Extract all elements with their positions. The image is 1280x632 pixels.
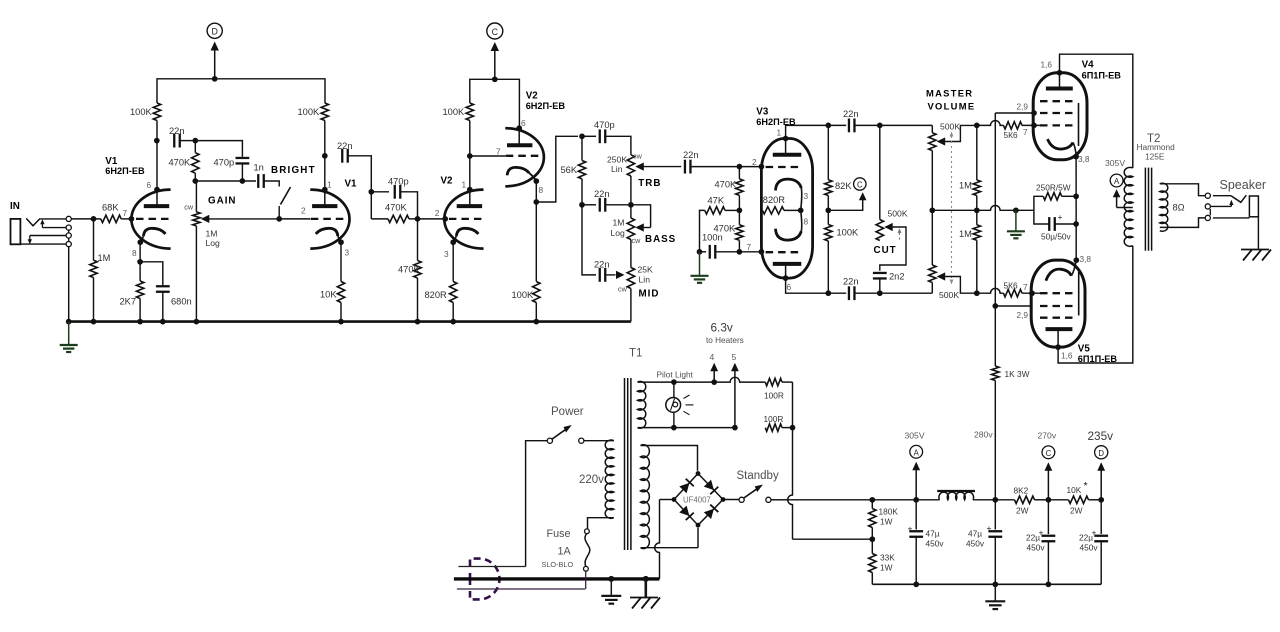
svg-text:6.3v: 6.3v (711, 321, 733, 335)
resistor 68K grid stopper (101, 215, 121, 222)
svg-text:+: + (908, 524, 913, 534)
tube V4 6P1P-EV envelope (1033, 73, 1087, 160)
svg-text:220v: 220v (579, 474, 604, 486)
svg-text:7: 7 (1023, 127, 1028, 137)
resistor 10K cathode V1b (340, 242, 342, 281)
capacitor 22n coupling V1a-V1b (173, 134, 175, 148)
wire V4 plate to output transformer (1060, 54, 1133, 168)
svg-text:22n: 22n (594, 260, 610, 270)
svg-text:305V: 305V (905, 431, 925, 441)
svg-text:3: 3 (444, 249, 449, 259)
svg-text:1W: 1W (880, 517, 893, 527)
svg-text:8: 8 (804, 217, 809, 227)
svg-text:V5: V5 (1078, 344, 1091, 355)
svg-text:500K: 500K (888, 209, 908, 219)
resistor 100K plate V2a (466, 103, 473, 121)
svg-text:470p: 470p (594, 120, 615, 130)
svg-text:68K: 68K (102, 203, 119, 213)
wire bridge negative to earth (660, 499, 675, 501)
svg-text:Standby: Standby (737, 470, 779, 482)
resistor 470K bias upper (738, 167, 740, 179)
svg-text:cw: cw (633, 152, 643, 161)
svg-text:100K: 100K (837, 228, 860, 238)
svg-text:Power: Power (551, 406, 584, 418)
svg-text:V1: V1 (105, 156, 118, 167)
svg-text:180K: 180K (879, 507, 899, 517)
svg-text:10K: 10K (320, 290, 337, 300)
triode V3b internals (773, 262, 802, 266)
wire V5 plate to output transformer (1058, 246, 1133, 363)
potentiometer master volume lower 500K (929, 265, 936, 283)
svg-text:TRB: TRB (638, 178, 661, 189)
node D circle (207, 23, 222, 38)
mains wires from plug (458, 566, 525, 568)
svg-text:V2: V2 (441, 176, 454, 187)
svg-text:6Н2П-ЕВ: 6Н2П-ЕВ (105, 166, 145, 176)
wire bass to mid column (630, 240, 632, 268)
wire heater top (638, 381, 674, 383)
svg-text:10K: 10K (1067, 485, 1082, 495)
svg-text:2n2: 2n2 (889, 272, 905, 282)
svg-text:500K: 500K (940, 121, 960, 131)
speaker jack (1213, 195, 1231, 197)
svg-text:*: * (1084, 480, 1088, 492)
wire jack sleeve to ground bus (68, 247, 70, 322)
heater arrows 6.3v (713, 370, 715, 382)
potentiometer master volume upper 500K (931, 125, 933, 132)
wire gain wiper to V1b grid (279, 218, 310, 220)
node A center tap 305V (1117, 207, 1133, 209)
svg-text:A: A (1114, 177, 1120, 186)
svg-text:22n: 22n (169, 126, 185, 136)
capacitor 22u 450v D node (1100, 500, 1102, 534)
svg-text:8K2: 8K2 (1014, 486, 1029, 496)
svg-text:2: 2 (752, 157, 757, 167)
resistor 1M input load (93, 219, 95, 260)
potentiometer GAIN 1M Log (195, 181, 197, 212)
svg-text:5К6: 5К6 (1004, 281, 1018, 291)
svg-text:3: 3 (345, 247, 350, 257)
node D supply arrow 235v (1098, 497, 1104, 503)
wire shared cathode node (1075, 157, 1077, 261)
svg-text:8: 8 (539, 185, 544, 195)
resistor 100R hum balance upper (765, 378, 782, 385)
svg-text:1W: 1W (880, 563, 893, 573)
wire V3 grid1 input (739, 166, 761, 168)
transformer T1 core (624, 378, 626, 550)
svg-text:100R: 100R (764, 391, 784, 401)
svg-text:22n: 22n (843, 109, 859, 119)
svg-text:cw: cw (618, 285, 628, 294)
wire to V2a grid (418, 218, 446, 220)
svg-text:8: 8 (132, 248, 137, 258)
resistor 470K series (388, 215, 409, 222)
resistor 470K bias lower (736, 225, 743, 241)
wire grid2 V3 (739, 251, 761, 253)
wire cathode to tone stack (536, 136, 578, 202)
wire bright line (195, 180, 256, 182)
svg-text:7: 7 (1023, 282, 1028, 292)
resistor 2K7 cathode V1a (136, 281, 143, 299)
choke filter (937, 490, 975, 492)
svg-text:5К6: 5К6 (1004, 130, 1018, 140)
svg-text:470K: 470K (169, 158, 192, 168)
svg-text:4: 4 (710, 352, 715, 362)
resistor 5K6 grid stopper V5 (1004, 290, 1023, 297)
wire standby to B+ rail (771, 499, 786, 501)
tube V5 6P1P-EV envelope (1031, 260, 1085, 347)
svg-text:D: D (1098, 449, 1104, 458)
svg-text:C: C (857, 180, 863, 189)
svg-text:CUT: CUT (874, 245, 897, 256)
wire V1a plate column (156, 121, 158, 190)
mains plug (470, 559, 499, 600)
resistor 1K 3W screen supply (994, 306, 996, 366)
svg-text:470p: 470p (388, 177, 409, 187)
svg-text:100R: 100R (764, 414, 784, 424)
resistor 47K tail (705, 207, 725, 214)
node A supply arrow 305V (915, 469, 917, 500)
switch Power (526, 441, 548, 567)
wire to 470p/470K split (371, 191, 389, 193)
ground symbol input (68, 322, 70, 345)
wire heater bottom (638, 427, 674, 429)
resistor 56K (581, 136, 583, 160)
svg-text:1: 1 (327, 179, 332, 189)
svg-text:UF4007: UF4007 (683, 496, 711, 505)
svg-text:+: + (987, 523, 992, 533)
wire V5 grid with hop over screen line (977, 288, 1004, 293)
svg-text:2W: 2W (1016, 506, 1029, 516)
svg-text:8Ω: 8Ω (1173, 203, 1185, 213)
svg-text:1K 3W: 1K 3W (1005, 369, 1030, 379)
svg-text:V2: V2 (526, 90, 539, 101)
svg-text:2,9: 2,9 (1017, 102, 1029, 112)
resistor 100R hum balance lower (765, 424, 782, 431)
wire secondary to speaker jack (1160, 184, 1205, 196)
bridge rectifier UF4007 (674, 474, 723, 526)
mains earth heavy line (454, 577, 660, 580)
wire middle rail (932, 206, 1016, 211)
earth ground symbol mains (610, 579, 612, 596)
svg-text:50µ/50v: 50µ/50v (1041, 231, 1072, 241)
node C supply arrow (494, 50, 496, 79)
wire jack to chassis ground (1257, 217, 1259, 249)
svg-text:2: 2 (301, 205, 306, 215)
svg-text:280v: 280v (974, 430, 993, 440)
svg-text:450v: 450v (1027, 543, 1046, 553)
capacitor 1n bright (257, 174, 259, 188)
wire V1a cathode to RC (139, 242, 141, 281)
resistor 82K plate load V3a (827, 125, 829, 179)
screen supply line (994, 113, 996, 306)
svg-text:VOLUME: VOLUME (928, 101, 976, 112)
potentiometer TRB 250K Lin (627, 155, 634, 176)
node C circle small (854, 178, 866, 190)
svg-text:V1: V1 (345, 179, 358, 190)
resistor 33K 1W divider lower (871, 539, 873, 553)
svg-text:D: D (212, 27, 218, 37)
svg-text:+: + (1058, 212, 1063, 222)
svg-text:125E: 125E (1145, 151, 1165, 161)
resistor 100K cathode follower load (533, 282, 540, 303)
svg-text:820R: 820R (425, 290, 448, 300)
svg-text:305V: 305V (1105, 158, 1125, 168)
wire hum balance to divider tap (792, 382, 794, 428)
ground symbol cathode (1015, 210, 1017, 231)
svg-text:Pilot Light: Pilot Light (657, 370, 694, 380)
resistor 8K2 2W (995, 499, 1014, 501)
ground bus preamp (69, 320, 631, 323)
wire cathode network to ground (1034, 196, 1045, 224)
svg-text:cw: cw (184, 202, 194, 211)
svg-text:SLO-BLO: SLO-BLO (542, 560, 574, 569)
node C circle (487, 23, 503, 39)
svg-text:1,6: 1,6 (1041, 60, 1053, 70)
svg-text:470K: 470K (715, 180, 738, 190)
capacitor 22n treble out (684, 160, 686, 174)
wire B+ rail C to V2 stage (470, 79, 520, 128)
pentode V5 internals (1046, 327, 1073, 331)
svg-text:Lin: Lin (611, 164, 623, 174)
svg-text:1n: 1n (254, 163, 264, 173)
resistor 100K plate V1b (321, 103, 328, 121)
capacitor 680n cathode bypass (156, 285, 170, 287)
triode V3a internals (773, 153, 802, 157)
svg-text:T1: T1 (629, 348, 642, 360)
svg-text:450v: 450v (926, 539, 945, 549)
B+ rail with hop (786, 499, 872, 501)
svg-text:2,9: 2,9 (1017, 310, 1029, 320)
triode V2b cathode follower (505, 128, 544, 186)
svg-text:5: 5 (732, 352, 737, 362)
svg-text:to Heaters: to Heaters (706, 336, 744, 345)
wire bridge positive to standby (723, 499, 739, 501)
resistor 100K plate load V3b (825, 225, 832, 242)
capacitor 22n output bottom (848, 286, 850, 300)
svg-text:BASS: BASS (645, 234, 676, 245)
svg-text:6П1П-ЕВ: 6П1П-ЕВ (1082, 71, 1122, 81)
wire V3a plate to top rail (786, 125, 847, 138)
wire HV secondary bottom to bridge (641, 547, 699, 549)
svg-text:250R/5W: 250R/5W (1036, 182, 1071, 192)
resistor 1M grid V5 (974, 290, 980, 296)
gang dotted link master volume (951, 136, 953, 280)
wire V3b plate to bottom rail (786, 278, 847, 293)
svg-text:100n: 100n (702, 233, 723, 243)
svg-text:1: 1 (777, 128, 782, 138)
wire 47K to 100n (700, 210, 705, 251)
capacitor 22n mid (582, 205, 596, 275)
ground symbol V3 tail (699, 252, 701, 276)
capacitor 47u 450v first filter (915, 500, 917, 530)
resistor 820R shared cathode (762, 207, 784, 214)
transformer T1 HV secondary winding (641, 445, 650, 549)
svg-text:7: 7 (123, 208, 128, 218)
capacitor 22n coupling V1b out (341, 149, 343, 163)
svg-text:100K: 100K (298, 107, 321, 117)
svg-text:235v: 235v (1088, 429, 1114, 443)
wire V1b plate column (324, 121, 326, 190)
svg-text:Lin: Lin (639, 275, 651, 285)
svg-text:2: 2 (435, 208, 440, 218)
pentode V4 internals (1046, 87, 1073, 91)
svg-text:820R: 820R (763, 195, 786, 205)
transformer T2 core (1144, 168, 1146, 251)
node C arrow (plate supply tap) (828, 200, 862, 210)
svg-text:1A: 1A (558, 546, 572, 558)
svg-text:22n: 22n (337, 141, 353, 151)
switch Standby (739, 497, 744, 502)
svg-text:680n: 680n (171, 297, 192, 307)
svg-text:47µ: 47µ (926, 529, 940, 539)
pilot light (673, 382, 675, 398)
svg-text:270v: 270v (1038, 431, 1057, 441)
svg-text:470p: 470p (214, 158, 235, 168)
svg-text:1: 1 (462, 179, 467, 189)
capacitor 470p treble (582, 135, 596, 137)
svg-text:2W: 2W (1070, 506, 1083, 516)
svg-text:7: 7 (496, 147, 501, 157)
svg-text:MID: MID (639, 289, 660, 300)
svg-text:22n: 22n (843, 277, 859, 287)
svg-text:56K: 56K (561, 165, 578, 175)
resistor 820R cathode V2a (452, 242, 454, 281)
tube V3 envelope 6N2P-EV (761, 139, 812, 279)
transformer T2 secondary winding (1160, 183, 1168, 231)
svg-text:1M: 1M (98, 253, 111, 263)
resistor 100K plate V1a (153, 103, 160, 121)
svg-text:A: A (914, 448, 920, 457)
wire V2b cathode node (535, 181, 537, 281)
wire input to grid V1 pin 7 (71, 218, 101, 220)
triode V1b 6N2P-EV (310, 190, 349, 249)
svg-text:500K: 500K (939, 290, 959, 300)
svg-text:450v: 450v (966, 539, 985, 549)
svg-text:3,8: 3,8 (1078, 154, 1090, 164)
svg-text:3: 3 (804, 191, 809, 201)
svg-text:82K: 82K (835, 181, 852, 191)
svg-text:V4: V4 (1082, 60, 1095, 71)
svg-text:6: 6 (787, 282, 792, 292)
capacitor 50u/50v cathode bypass (1048, 217, 1050, 231)
transformer T1 primary winding (605, 440, 614, 518)
resistor 10K 2W (1069, 496, 1089, 503)
svg-text:33K: 33K (880, 553, 895, 563)
svg-text:470K: 470K (398, 265, 421, 275)
svg-text:47K: 47K (708, 195, 725, 205)
node 280v junction (992, 497, 998, 503)
svg-text:100K: 100K (130, 107, 153, 117)
potentiometer CUT 500K (879, 125, 881, 219)
svg-text:22µ: 22µ (1079, 533, 1093, 543)
svg-text:22n: 22n (594, 189, 610, 199)
wire V2a plate to V2b grid junction (469, 121, 471, 190)
svg-text:C: C (492, 27, 499, 37)
capacitor 470p treble peek (394, 185, 396, 199)
wire 22n out to 470K and 470p (195, 141, 242, 157)
svg-text:6: 6 (147, 180, 152, 190)
triode V1a 6N2P-EV (131, 190, 170, 249)
chassis ground speaker (1241, 249, 1269, 251)
svg-text:Fuse: Fuse (547, 528, 571, 540)
svg-text:1,6: 1,6 (1061, 351, 1073, 361)
capacitor 22n bass (579, 202, 585, 208)
node D supply arrow (214, 50, 216, 79)
wire B+ rail D to V1 stage (157, 79, 325, 103)
svg-text:1M: 1M (206, 228, 218, 238)
svg-text:MASTER: MASTER (926, 88, 973, 99)
speaker jack contacts (1205, 193, 1210, 198)
chassis ground symbol mains (644, 579, 647, 598)
svg-text:22µ: 22µ (1026, 533, 1040, 543)
svg-text:1M: 1M (613, 218, 625, 228)
capacitor 470p bright feed (236, 157, 250, 159)
svg-text:1M: 1M (959, 229, 972, 239)
resistor 470K to ground (417, 219, 419, 261)
resistor 180K 1W divider upper (871, 500, 873, 509)
wire HV secondary top to bridge (641, 446, 698, 471)
transformer T2 primary winding (1124, 167, 1133, 246)
fuse (588, 518, 614, 529)
svg-text:450v: 450v (1080, 543, 1099, 553)
wire V4 grid with hop over screen line (977, 121, 1004, 126)
svg-text:cw: cw (632, 236, 642, 245)
transformer T1 heater winding 6.3v (638, 381, 646, 428)
resistor 470K gain feed (192, 153, 199, 174)
potentiometer MID 25K Lin (627, 268, 634, 289)
wire switch to T1 primary (584, 440, 614, 442)
svg-text:BRIGHT: BRIGHT (271, 165, 316, 176)
svg-text:GAIN: GAIN (208, 196, 237, 207)
svg-text:IN: IN (10, 201, 20, 212)
resistor 5K6 grid stopper V4 (1004, 122, 1023, 129)
svg-text:25K: 25K (638, 265, 654, 275)
capacitor 100n tail bypass (700, 251, 707, 253)
capacitor 47u 450v second filter (994, 500, 996, 530)
svg-text:22n: 22n (683, 150, 699, 160)
svg-text:6Н2П-ЕВ: 6Н2П-ЕВ (526, 101, 566, 111)
switch bright (264, 181, 280, 187)
triode V2a 6N2P-EV (444, 190, 483, 249)
capacitor 22n output top (848, 119, 850, 133)
svg-text:Log: Log (611, 228, 626, 238)
svg-text:Speaker: Speaker (1220, 178, 1267, 192)
resistor 1M grid V4 (974, 123, 980, 129)
capacitor 22u 450v C node (1047, 500, 1049, 534)
svg-text:3,8: 3,8 (1080, 254, 1092, 264)
svg-text:1M: 1M (959, 181, 972, 191)
svg-text:100K: 100K (512, 290, 535, 300)
svg-text:7: 7 (747, 242, 752, 252)
svg-text:250K: 250K (607, 155, 627, 165)
node C supply arrow 270v (1046, 497, 1052, 503)
svg-text:C: C (1046, 449, 1052, 458)
svg-text:Log: Log (206, 238, 221, 248)
potentiometer BASS 1M Log (627, 218, 634, 240)
svg-text:100K: 100K (443, 107, 466, 117)
junction tone stack input (579, 133, 585, 139)
earth ground symbol PSU (994, 584, 996, 601)
svg-text:6: 6 (521, 118, 526, 128)
resistor 250R/5W cathode bias (1043, 193, 1062, 200)
svg-text:47µ: 47µ (968, 529, 982, 539)
svg-text:2K7: 2K7 (120, 297, 137, 307)
PSU ground rail (872, 583, 1101, 585)
capacitor 2n2 cut (873, 272, 887, 274)
svg-text:470K: 470K (385, 203, 408, 213)
